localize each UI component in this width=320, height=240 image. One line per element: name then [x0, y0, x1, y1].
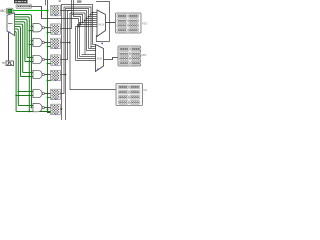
register REG6 [51, 89, 61, 100]
bus riser REG3 vertical to box C [70, 13, 116, 90]
svg-text:RE: RE [144, 88, 148, 92]
svg-text:MC: MC [0, 9, 6, 13]
bus riser REG5 [60, 9, 88, 121]
wire REG7 data in [29, 111, 50, 113]
clock tap REG3 [47, 46, 51, 48]
wire G4 input a [27, 57, 33, 59]
nand gate G5 [33, 70, 44, 78]
register REG4 [51, 55, 61, 66]
wire decoder output D2 [15, 19, 28, 57]
mux U3 [96, 45, 104, 72]
wire decoder output D1 [15, 17, 30, 112]
display box MB3 [116, 84, 147, 106]
wire G6 input a [17, 91, 33, 93]
clock tap REG2 [47, 32, 51, 34]
wire decoder output D0 [15, 15, 32, 108]
bus riser REG4 [60, 11, 86, 60]
wire offscreen top C [45, 0, 47, 5]
bus riser REG2 [60, 15, 82, 57]
wire decoder output D6 [15, 29, 19, 106]
bus riser REG3 [60, 42, 70, 44]
clock tap REG6 [47, 97, 51, 99]
label box title [14, 0, 28, 3]
svg-text:MLB: MLB [97, 56, 103, 60]
nand gate G6 [33, 89, 44, 97]
display box RES [116, 13, 148, 33]
wire U3 output [104, 58, 119, 60]
wire G6 out [45, 93, 51, 95]
wire G7 input a [18, 106, 33, 109]
wire G6 input b [15, 95, 33, 97]
nand gate G7 [33, 103, 44, 111]
wire G5 out [45, 74, 51, 76]
wire decoder output D5 [15, 27, 21, 77]
wire U2 output [106, 22, 116, 24]
mux U3 input stubs [76, 45, 98, 61]
nand gate G2 [33, 24, 44, 32]
wire G4 out [45, 59, 51, 61]
wire offscreen top B [73, 0, 75, 11]
clock tap REG7 [47, 109, 49, 111]
wire clock vertical [48, 11, 51, 113]
register REG2 [51, 24, 61, 35]
wire offscreen top A [71, 0, 73, 15]
display box MB2 [118, 46, 147, 66]
svg-text:MUX: MUX [98, 22, 104, 26]
wire G2 input b [28, 30, 33, 32]
clock CLK1 [2, 61, 13, 66]
svg-text:MB2: MB2 [141, 53, 147, 57]
mux U2 input stubs [78, 12, 97, 28]
wire G2 input a [31, 26, 34, 28]
wire top net [96, 2, 110, 42]
register REG3 [51, 38, 61, 49]
svg-text:RES: RES [142, 22, 148, 26]
wire G3 input a [31, 40, 34, 42]
bus riser REG7 [60, 5, 92, 121]
wire offscreen clock top [47, 0, 49, 11]
wire probe to bus [32, 7, 79, 19]
top edge label A7 [77, 0, 82, 2]
wire G7 out [45, 107, 51, 109]
register REG5 [51, 70, 61, 81]
register REG7 [51, 104, 61, 115]
wire decoder select [8, 33, 10, 61]
bus riser REG1 [60, 11, 80, 59]
wire G2 out [45, 27, 51, 29]
top edge label A6 [59, 0, 61, 2]
wire decoder output D3 [15, 22, 25, 62]
clock tap REG5 [47, 80, 51, 82]
register REG1 [51, 5, 61, 16]
wire G4 input b [25, 61, 33, 63]
clock tap REG4 [47, 63, 51, 65]
decoder U1 [7, 13, 15, 36]
input pin MC [0, 8, 13, 14]
probe P1 [16, 4, 32, 9]
mux U2 [97, 10, 106, 37]
nand gate G3 [33, 38, 44, 46]
wire decoder output D7 [15, 31, 17, 111]
wire G3 input b [28, 44, 33, 46]
wire G5 input a [23, 72, 34, 74]
wire G7 input b [16, 111, 30, 113]
wire MC clock net [13, 9, 49, 11]
nand gate G4 [33, 55, 44, 63]
wire U2 select [96, 35, 109, 44]
clock tap REG1 [0, 0, 1, 1]
wire decoder output D4 [15, 24, 23, 72]
bus probe branch vertical [76, 19, 79, 61]
bus riser REG6 [60, 7, 92, 94]
wire G3 out [45, 42, 51, 44]
wire G5 input b [21, 76, 34, 78]
